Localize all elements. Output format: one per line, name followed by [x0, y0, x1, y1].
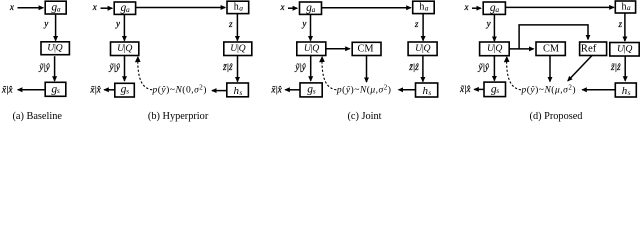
svg-text:CM: CM: [543, 44, 559, 55]
svg-text:z̃|ẑ: z̃|ẑ: [222, 62, 233, 72]
svg-text:h: h: [622, 1, 627, 12]
svg-text:ỹ|ŷ: ỹ|ŷ: [294, 62, 305, 72]
svg-text:x: x: [464, 2, 469, 12]
svg-text:U|Q: U|Q: [304, 43, 319, 54]
svg-text:(c) Joint: (c) Joint: [347, 111, 381, 122]
svg-text:U|Q: U|Q: [487, 43, 502, 54]
svg-text:s: s: [126, 86, 129, 95]
svg-text:x: x: [9, 2, 14, 12]
svg-text:z̃|ẑ: z̃|ẑ: [408, 62, 419, 72]
svg-text:s: s: [428, 88, 431, 97]
svg-text:z: z: [228, 19, 233, 29]
svg-text:y: y: [115, 18, 120, 28]
svg-text:s: s: [313, 87, 316, 96]
svg-text:(a) Baseline: (a) Baseline: [12, 111, 62, 122]
svg-text:x̃|x̂: x̃|x̂: [270, 84, 282, 94]
svg-text:a: a: [425, 3, 429, 12]
svg-text:U|Q: U|Q: [415, 43, 430, 54]
svg-text:x: x: [92, 2, 97, 12]
svg-text:x: x: [280, 2, 285, 12]
svg-text:y: y: [486, 18, 491, 28]
svg-text:s: s: [496, 86, 499, 95]
svg-text:ỹ|ŷ: ỹ|ŷ: [109, 62, 120, 72]
svg-text:p(ŷ)~N(μ,σ2): p(ŷ)~N(μ,σ2): [336, 84, 391, 96]
svg-text:a: a: [312, 5, 316, 14]
svg-text:a: a: [239, 3, 243, 12]
svg-text:Ref: Ref: [581, 43, 597, 55]
svg-text:U|Q: U|Q: [617, 43, 632, 54]
svg-text:s: s: [57, 86, 60, 95]
svg-text:y: y: [301, 18, 306, 28]
svg-text:a: a: [57, 4, 61, 13]
svg-text:a: a: [495, 5, 499, 14]
svg-text:x̃|x̂: x̃|x̂: [459, 84, 471, 94]
svg-text:x̃|x̂: x̃|x̂: [1, 84, 13, 94]
svg-text:p(ŷ)~N(0,σ2): p(ŷ)~N(0,σ2): [152, 84, 207, 96]
svg-text:z: z: [414, 19, 419, 29]
svg-text:h: h: [419, 2, 424, 13]
svg-text:z: z: [618, 19, 623, 29]
svg-text:x̃|x̂: x̃|x̂: [89, 84, 101, 94]
svg-text:h: h: [234, 2, 239, 13]
svg-text:s: s: [628, 88, 631, 97]
svg-text:p(ŷ)~N(μ,σ2): p(ŷ)~N(μ,σ2): [521, 84, 576, 96]
svg-text:y: y: [43, 18, 48, 28]
svg-text:ỹ|ŷ: ỹ|ŷ: [38, 62, 49, 72]
svg-text:(d) Proposed: (d) Proposed: [530, 111, 584, 122]
svg-text:s: s: [239, 88, 242, 97]
svg-text:a: a: [627, 3, 631, 12]
svg-text:U|Q: U|Q: [117, 43, 132, 54]
svg-text:U|Q: U|Q: [47, 43, 62, 54]
svg-text:CM: CM: [357, 44, 373, 55]
svg-text:z̃|ẑ: z̃|ẑ: [610, 62, 621, 72]
svg-text:a: a: [126, 5, 130, 14]
svg-text:ỹ|ŷ: ỹ|ŷ: [478, 62, 489, 72]
svg-text:(b) Hyperprior: (b) Hyperprior: [148, 111, 209, 122]
svg-text:U|Q: U|Q: [230, 43, 245, 54]
